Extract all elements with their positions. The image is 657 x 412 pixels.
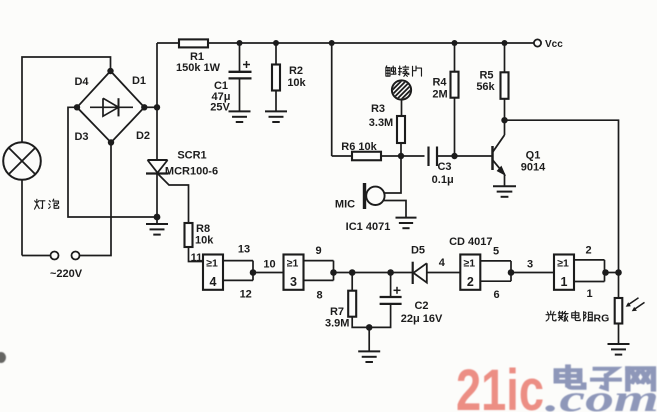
- svg-text:Vcc: Vcc: [545, 39, 563, 50]
- svg-text:2: 2: [467, 275, 474, 289]
- svg-text:10: 10: [263, 259, 275, 271]
- svg-text:D3: D3: [74, 131, 88, 143]
- svg-text:22μ 16V: 22μ 16V: [401, 313, 443, 325]
- svg-text:21ic: 21ic: [456, 359, 544, 412]
- svg-text:R5: R5: [479, 70, 493, 82]
- svg-text:~220V: ~220V: [50, 268, 83, 280]
- svg-text:3.3M: 3.3M: [369, 117, 393, 129]
- svg-text:9: 9: [315, 245, 321, 257]
- svg-text:C3: C3: [437, 161, 451, 173]
- svg-text:56k: 56k: [476, 81, 495, 93]
- svg-text:3: 3: [527, 259, 533, 271]
- svg-text:11: 11: [191, 252, 203, 264]
- svg-text:2M: 2M: [432, 89, 447, 101]
- svg-text:MCR100-6: MCR100-6: [165, 166, 218, 178]
- svg-text:RG: RG: [594, 313, 610, 325]
- svg-text:4: 4: [210, 275, 217, 289]
- svg-text:8: 8: [316, 290, 322, 302]
- svg-text:R8: R8: [196, 223, 210, 235]
- svg-text:C2: C2: [414, 300, 428, 312]
- svg-text:9014: 9014: [521, 162, 546, 174]
- svg-text:6: 6: [493, 289, 499, 301]
- svg-text:3: 3: [290, 275, 297, 289]
- svg-text:SCR1: SCR1: [177, 150, 206, 162]
- svg-text:150k 1W: 150k 1W: [176, 62, 221, 74]
- svg-text:D5: D5: [411, 245, 425, 257]
- svg-text:≥1: ≥1: [287, 258, 299, 270]
- svg-text:5: 5: [493, 246, 499, 258]
- svg-text:R2: R2: [289, 65, 303, 77]
- svg-text:4: 4: [439, 257, 446, 269]
- svg-text:3.9M: 3.9M: [325, 318, 349, 330]
- svg-text:≥1: ≥1: [557, 258, 569, 270]
- svg-text:Q1: Q1: [526, 150, 541, 162]
- svg-text:R3: R3: [371, 103, 385, 115]
- svg-text:0.1μ: 0.1μ: [432, 174, 454, 186]
- svg-text:10k: 10k: [287, 77, 306, 89]
- svg-text:R6 10k: R6 10k: [341, 141, 377, 153]
- svg-text:R4: R4: [432, 77, 447, 89]
- svg-text:D2: D2: [136, 130, 150, 142]
- svg-text:R7: R7: [330, 306, 344, 318]
- svg-text:D4: D4: [74, 76, 89, 88]
- svg-text:CD 4017: CD 4017: [449, 236, 492, 248]
- svg-text:1: 1: [561, 275, 568, 289]
- svg-text:IC1 4071: IC1 4071: [346, 221, 391, 233]
- svg-text:12: 12: [240, 289, 252, 301]
- svg-text:≥1: ≥1: [463, 258, 475, 270]
- svg-text:2: 2: [585, 245, 591, 257]
- svg-text:10k: 10k: [195, 235, 214, 247]
- svg-text:D1: D1: [132, 75, 146, 87]
- svg-text:13: 13: [238, 244, 250, 256]
- svg-text:25V: 25V: [210, 102, 230, 114]
- svg-text:MIC: MIC: [335, 199, 355, 211]
- svg-text:≥1: ≥1: [206, 258, 218, 270]
- svg-text:1: 1: [586, 288, 592, 300]
